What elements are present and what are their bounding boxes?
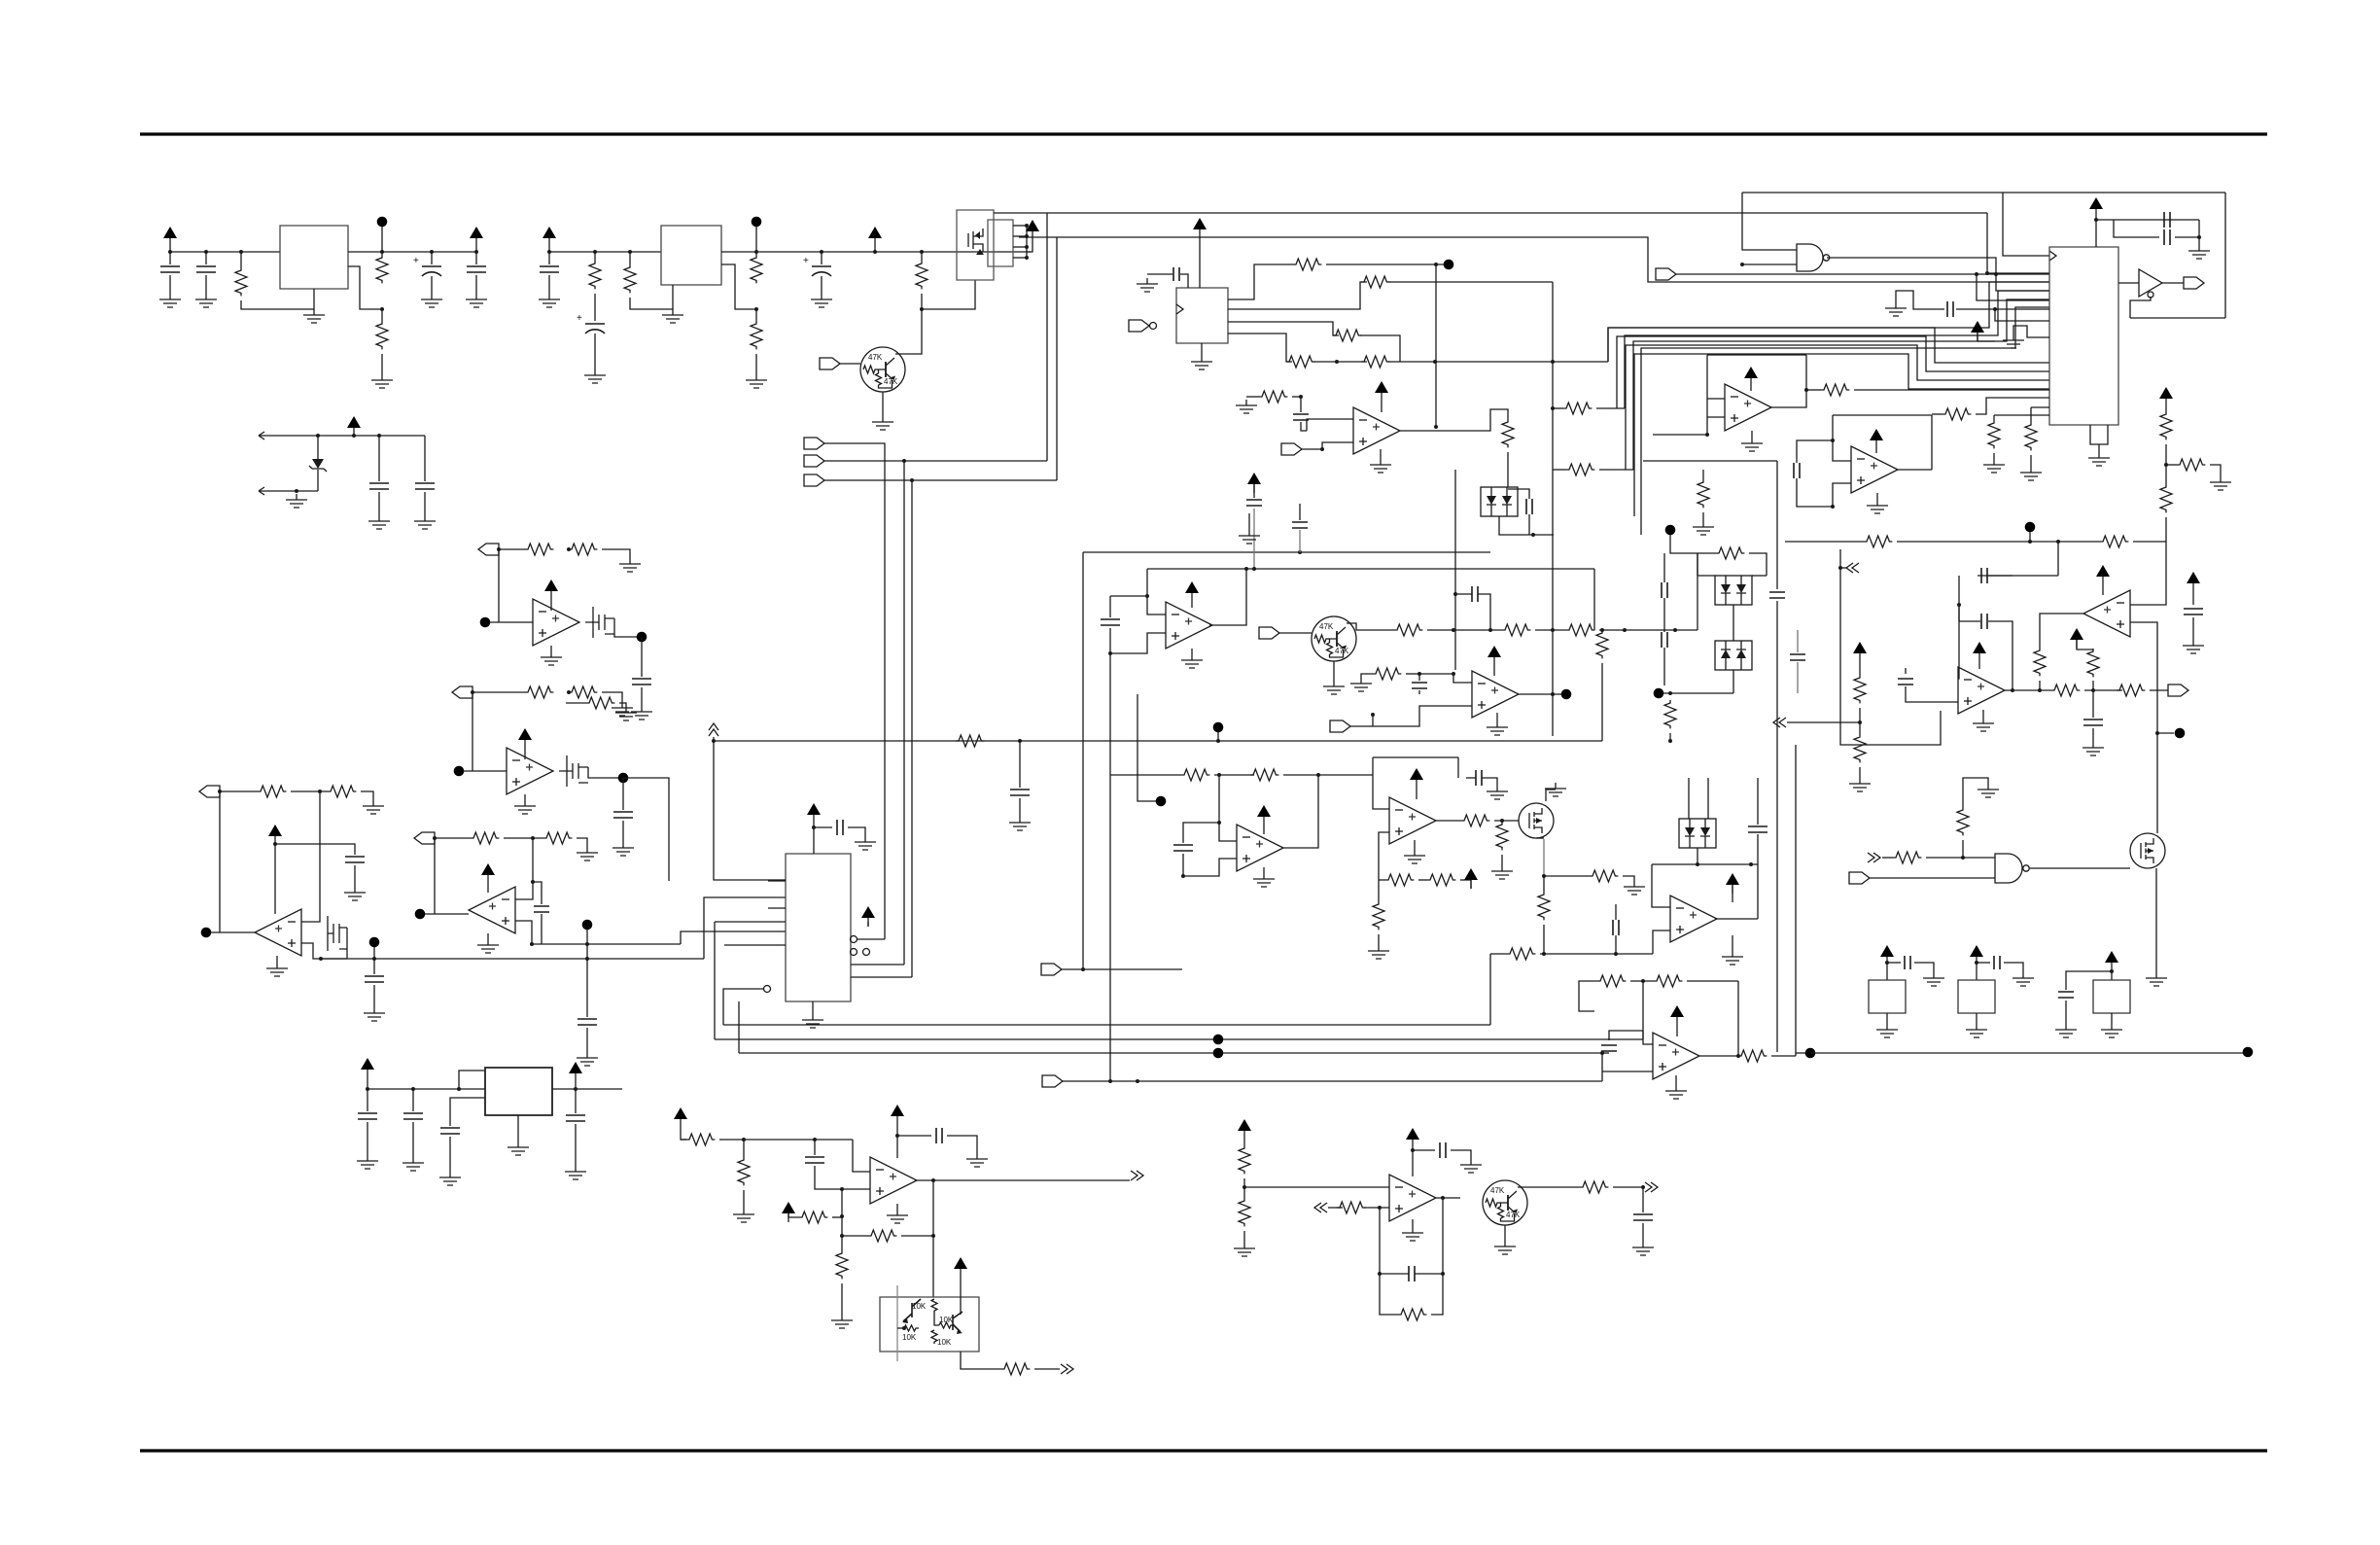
wire [1493,666,1495,676]
junction [352,434,356,438]
wire [921,252,923,261]
wire [1301,422,1307,431]
wire [373,947,375,959]
op-amp U13 [1389,797,1436,844]
wire U27 minus [1652,864,1670,907]
wire [2198,220,2200,245]
wire [1630,980,1654,982]
resistor R42 [1427,874,1455,886]
wire [1253,484,1255,498]
power +V [1726,873,1739,894]
output flag D [414,832,435,844]
wire [2111,971,2113,980]
svg-text:+: + [803,256,809,266]
capacitor C41 [1794,463,1800,478]
wire [1870,877,1995,879]
wire U6 pin [724,944,786,946]
wire [586,930,588,944]
wire tee pin309 [1977,274,2049,300]
wire [381,227,383,252]
wire [1027,240,1032,252]
optocoupler U14b [1679,819,1716,848]
ground [1545,783,1566,796]
resistor R8 [916,261,927,289]
wire [1279,632,1312,634]
junction [1371,713,1375,717]
crystal Y1 [1869,980,1906,1013]
wire [1381,402,1382,412]
svg-text:10K: 10K [902,1333,917,1342]
wire [575,1089,577,1113]
resistor R22 [1333,330,1361,341]
wire E minus [1219,775,1237,841]
wire [1228,334,1292,362]
power +V [2105,951,2118,971]
ground [662,309,683,323]
wire [1183,823,1219,843]
resistor R35 [1716,547,1744,559]
wire [1300,397,1302,412]
resistor R12 [586,697,614,709]
wire [1243,1178,1245,1198]
wire [821,252,822,264]
crystal Y2 cap [1994,956,2000,969]
ground [2020,467,2042,480]
wire [1757,834,1759,864]
wire [2092,728,2094,742]
junction [567,690,571,694]
resistor R7 [751,321,762,349]
resistor R78 [1957,807,1969,835]
U5 clk mark [1176,304,1183,314]
junction [531,836,535,840]
junction [380,307,384,311]
wire [1797,662,1799,693]
resistor R63 [1988,420,2000,448]
wire zener bottom [270,490,318,492]
capacitor C25 [1173,845,1193,851]
wire [2165,407,2167,411]
wire [1601,1053,1603,1081]
junction [474,250,478,254]
wire to U18 [932,1180,934,1297]
wire [566,702,586,704]
op-amp U4B [469,887,515,933]
wire [169,252,171,264]
junction [840,1234,844,1238]
capacitor C32 [566,1115,585,1121]
ground [1632,1242,1654,1255]
resistor R66 [2177,459,2205,471]
wire [1544,875,1590,877]
zener diode D1 [309,459,327,472]
resistor R36 [1664,700,1676,728]
capacitor C47 [2058,992,2074,998]
junction [1994,272,1998,276]
power +V [1880,945,1894,966]
wire [1963,778,1988,807]
junction [457,1087,461,1091]
wire [1663,598,1665,632]
junction [372,957,376,961]
wire [373,959,375,974]
power +V [1464,868,1478,889]
resistor R1 [235,267,247,296]
resistor R18 [543,832,572,844]
wire [1201,343,1203,356]
junction [1641,979,1645,983]
junction [840,1187,844,1191]
wire [788,1213,799,1217]
op-amp U19 [1389,1175,1436,1221]
power +V [1026,220,1039,240]
wire IN2 drop [903,461,905,965]
wire bus Y1054 rise [1489,954,1491,1025]
wire [313,289,315,309]
wire [2162,282,2184,284]
wire [1806,389,1821,391]
wire C net long [321,958,704,960]
wire Q1 emitter [882,392,884,416]
wire [1599,629,1697,631]
junction [820,250,823,254]
wire [1419,673,1453,675]
wire [367,1078,368,1089]
regulator U16 [485,1068,552,1115]
input flag [1042,1075,1063,1087]
wire U6 pin [768,880,786,882]
wire [1732,605,1734,641]
wire [815,1166,842,1189]
junction [1434,263,1438,266]
junction [1316,773,1320,777]
wire Y585 [1246,568,1594,570]
wire [1653,434,1707,436]
wire [1528,514,1530,535]
junction [1531,533,1535,537]
net chevron right [1131,1171,1143,1180]
junction [1025,234,1029,238]
wire [896,1285,898,1361]
wire [2065,1001,2067,1024]
svg-text:47K: 47K [868,353,883,362]
junction [920,307,924,311]
wire [2133,541,2166,543]
wire stair s4 [1634,354,2049,516]
output flag C [199,786,220,797]
wire to U6 [714,741,786,880]
ground [1491,865,1513,879]
wire [2077,640,2093,650]
wire [842,1235,868,1237]
jfet buffer B [559,755,588,787]
wire [867,922,869,927]
resistor R4 [589,261,601,289]
wire [2165,517,2167,542]
ground [1741,438,1763,451]
resistor R5 [624,264,636,293]
svg-text:10K: 10K [937,1338,952,1347]
capacitor C36 [1633,1214,1653,1220]
ground [507,1141,529,1155]
capacitor C28 [1601,1045,1617,1051]
junction [902,459,906,463]
power +V [2187,572,2200,592]
wire [463,770,507,772]
jfet buffer C [328,916,347,951]
ground [1693,521,1714,535]
wire [1553,469,1566,471]
junction [813,1138,817,1141]
junction [1885,961,1889,965]
junction [873,250,877,254]
mcu U6 [786,854,851,1001]
wire flag bus [1063,1080,1602,1082]
buffer U22 [2139,269,2162,298]
junction [1858,720,1862,724]
junction [1641,1185,1645,1189]
wire [1416,789,1417,799]
wire [1977,962,1990,964]
capacitor C24 [1662,632,1667,648]
wire vertical V7 [1454,470,1456,670]
ground [966,1153,988,1167]
junction [1299,395,1303,399]
wire [1675,1075,1677,1085]
wire bus B top [1057,237,2049,282]
resistor R71 [2100,536,2128,547]
junction [318,790,322,793]
wire [2066,971,2112,990]
node [2025,522,2036,533]
input flag [1041,964,1062,975]
resistor R49 [738,1157,750,1185]
wire F2 out [1770,390,1806,407]
wire E in [1110,774,1181,776]
U5 pin bubble [1150,323,1157,330]
wire feedback U2 [630,298,673,309]
wire bus A top [1047,212,1987,214]
ground [159,294,181,307]
ground [811,294,832,307]
op-amp U23A [1725,384,1771,431]
junction [366,1087,369,1091]
wire G out [1436,820,1461,822]
wire [755,252,757,255]
wire [586,944,588,1017]
wire [1749,553,1767,576]
wire [1110,595,1147,597]
junction [1244,567,1248,571]
wire [381,309,383,321]
wire [851,976,912,978]
capacitor C33 [805,1157,824,1163]
wire [1978,662,1980,669]
wire D to U6 [681,931,786,944]
junction [1378,1206,1382,1210]
wire [1299,504,1301,520]
capacitor C37 [1409,1266,1415,1282]
wire [1214,774,1254,776]
junction [1434,425,1438,429]
wire [459,1071,485,1089]
node [2175,728,2186,739]
wire [367,1122,368,1155]
power +V [674,1107,687,1128]
wire [1466,777,1476,779]
input flag [1259,627,1279,639]
wire [2031,406,2049,408]
ground [565,1166,586,1179]
resistor R82 [1538,892,1550,920]
wire C to U6 [704,897,786,959]
junction [1542,952,1546,956]
junction [1453,592,1457,596]
wire [2098,444,2100,452]
input flag IN2 [804,455,824,467]
power +V input rail 1 [163,227,177,247]
capacitor C23 [1662,582,1667,598]
wire [2111,1013,2113,1024]
wire U27 loop [1652,863,1758,865]
junction [1488,628,1492,632]
wire rail2 out [721,251,1031,253]
top rule [140,132,2267,135]
wire [1418,879,1427,881]
svg-text:10K: 10K [912,1302,927,1311]
wire [755,309,757,321]
transistor Q5 [953,1312,962,1334]
wire [814,1140,816,1155]
wire [743,1140,745,1157]
wire [2165,444,2167,484]
power +V [1744,367,1758,387]
wire loop left [1742,193,1797,250]
nand gate U21 [1797,244,1830,271]
wire J1 bus [1026,226,1028,258]
wire rail3 [367,1088,485,1090]
wire [1243,1140,1245,1145]
resistor R51 [868,1230,896,1242]
wire [169,247,171,252]
junction [1673,628,1677,632]
ground [1253,873,1275,887]
capacitor C38 [2164,212,2170,228]
wire [1956,308,2049,310]
ground [303,309,325,323]
power +V [1870,429,1883,449]
wire [1406,673,1419,675]
junction [377,434,381,438]
wire [450,1098,485,1126]
wire step gnd [1896,291,1944,309]
resistor R25 [1563,403,1592,414]
net chevron left [1846,563,1859,573]
node A out [637,632,647,643]
wire [1535,629,1566,631]
wire U25 out [2005,689,2051,691]
capacitor C51 [1101,619,1120,625]
resistor R30 [1502,624,1530,636]
wire Q1 collector [895,310,922,354]
wire [1180,274,1188,288]
capacitor C2 [196,266,216,272]
wire [896,1204,898,1210]
wire vertical x1893 [1840,549,1941,745]
junction [2164,463,2168,467]
ground [1867,500,1888,513]
wire [2118,282,2139,284]
digital transistor Q2 [1312,616,1356,661]
junction [497,547,501,551]
ground [887,1210,908,1223]
ground [2210,476,2231,490]
wire vertical V5 [1435,264,1437,427]
wire vertical x1828 lower [1776,601,1778,1052]
wire [594,252,596,261]
wire [1859,767,1861,778]
regulator U2 [661,226,721,285]
input flag [1281,443,1302,455]
ground [1494,1241,1516,1254]
wire [1326,263,1449,265]
wire U6 pin [715,921,786,923]
wire [541,914,542,944]
wire H minus [1643,1031,1653,1044]
junction [1542,874,1546,878]
resistor R80b [2034,648,2046,676]
wire [1702,470,1704,479]
resistor R17 [471,832,499,844]
wire [1859,662,1861,675]
wire [1109,628,1111,653]
resistor R65 [2160,411,2172,439]
node TP1 [1156,796,1167,807]
power +V [861,906,875,927]
wire [1328,1207,1343,1209]
wire [487,933,489,939]
junction [1551,628,1555,632]
junction [1838,566,1842,570]
capacitor C16 [837,820,843,835]
resistor R38 [1250,769,1278,781]
U6 pin bubble [851,949,857,956]
resistor R11 [569,544,597,555]
ground [2012,972,2034,986]
capacitor C10 [632,679,651,685]
junction [2094,218,2098,222]
wire [1593,569,1595,630]
junction [1417,672,1421,676]
capacitor C54 [1790,654,1805,660]
wire [2004,963,2023,972]
junction [547,250,551,254]
wire [1602,1071,1653,1072]
wire [1615,935,1617,954]
wire [841,1236,843,1250]
wire [353,436,355,437]
wire U6 nROM [723,989,763,1025]
junction [1108,651,1112,655]
wire U26 out [2029,867,2130,869]
junction [1298,550,1302,554]
ground [2082,742,2104,755]
junction [1804,388,1808,392]
capacitor C35 [1440,1142,1446,1158]
wire [472,691,525,693]
wire [602,692,622,702]
wire [1147,273,1172,275]
